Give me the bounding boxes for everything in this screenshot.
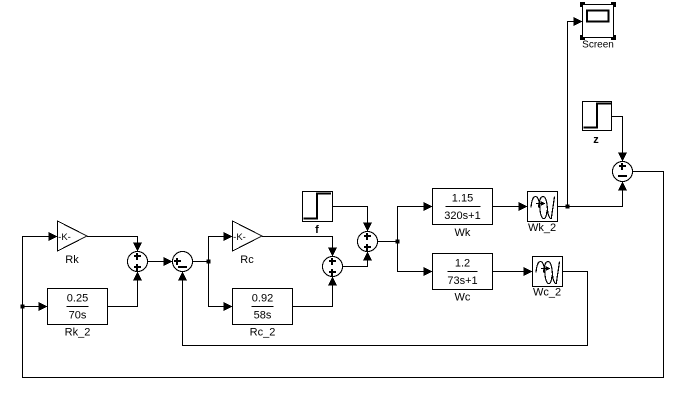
wire node up to Screen input xyxy=(568,17,583,207)
sum Sum3 (Rc + Rc_2) xyxy=(323,257,343,277)
wire branch to Rk_2 input xyxy=(23,302,48,311)
selection handle top-left of Screen xyxy=(580,2,585,7)
sum Sum5 (z minus feedback) xyxy=(613,162,633,182)
wire Wk output to Wk_2 input xyxy=(493,202,528,211)
wire z to sum Sum5 xyxy=(612,117,628,162)
sum Sum1 (Rk + Rk_2) xyxy=(128,252,148,272)
svg-text:0.25: 0.25 xyxy=(67,293,88,305)
svg-text:Rk_2: Rk_2 xyxy=(65,327,91,339)
wire Wk_2 output to node xyxy=(558,206,568,208)
wire Sum5 output right, down, along bottom, up to Rk input xyxy=(23,172,664,378)
wire branch down to Rc_2 input xyxy=(209,262,233,312)
wire Wc output to Wc_2 input xyxy=(493,267,533,276)
node branch to Rk_2 xyxy=(21,305,25,309)
transfer function Wk xyxy=(433,189,493,240)
svg-text:58s: 58s xyxy=(254,310,272,322)
svg-text:320s+1: 320s+1 xyxy=(444,210,480,222)
step source f xyxy=(303,192,333,237)
node branch to Rc and Rc_2 xyxy=(207,260,211,264)
wire Sum2 output to branch node xyxy=(193,261,209,263)
svg-text:-K-: -K- xyxy=(233,232,246,243)
svg-text:Wc_2: Wc_2 xyxy=(533,287,561,299)
wire Rc output to sum Sum3 top xyxy=(262,237,337,257)
selection handle bottom-right of Screen xyxy=(611,35,616,40)
selection handle top-right of Screen xyxy=(611,2,616,7)
wire Wc_2 output down and back to Sum2 bottom xyxy=(178,272,588,346)
wire branch up to Wk input xyxy=(398,202,433,242)
gain Rc xyxy=(233,221,263,266)
scope block Screen xyxy=(582,5,614,51)
svg-text:Wc: Wc xyxy=(455,292,471,304)
transport delay Wc_2 xyxy=(533,257,563,299)
transport delay Wk_2 xyxy=(528,192,558,235)
transfer function Rc_2 xyxy=(233,289,293,339)
gain Rk xyxy=(58,221,88,266)
transfer function Rk_2 xyxy=(48,289,108,339)
sum Sum2 (plus left, minus bottom) xyxy=(173,252,193,272)
wire f output to sum Sum4 top xyxy=(333,207,373,232)
svg-text:Wk: Wk xyxy=(455,227,471,239)
sum Sum4 (f + Sum3) xyxy=(358,232,378,252)
svg-text:Rk: Rk xyxy=(65,254,79,266)
svg-text:z: z xyxy=(593,134,599,146)
wire branch up to Rc input xyxy=(209,232,233,262)
svg-text:-K-: -K- xyxy=(58,232,71,243)
wire Rc_2 output to sum Sum3 bottom xyxy=(293,277,338,307)
svg-text:70s: 70s xyxy=(69,310,87,322)
svg-text:1.15: 1.15 xyxy=(452,193,473,205)
svg-text:73s+1: 73s+1 xyxy=(447,275,477,287)
wire Sum1 output to sum Sum2 xyxy=(148,257,173,266)
svg-text:Wk_2: Wk_2 xyxy=(528,222,556,234)
svg-text:Rc_2: Rc_2 xyxy=(250,327,276,339)
selection handle bottom-left of Screen xyxy=(580,35,585,40)
wire Rk_2 output to sum Sum1 bottom xyxy=(108,272,143,307)
wire branch down to Wc input xyxy=(398,242,433,277)
wire Sum3 output to sum Sum4 bottom xyxy=(343,252,373,267)
transfer function Wc xyxy=(433,254,493,304)
wire Sum4 output to branch node xyxy=(378,241,398,243)
svg-text:Screen: Screen xyxy=(582,40,614,51)
svg-text:0.92: 0.92 xyxy=(252,293,273,305)
svg-text:f: f xyxy=(315,224,319,236)
wire Rk output to sum Sum1 top xyxy=(87,237,142,252)
node branch to Screen and Sum5 xyxy=(566,205,570,209)
svg-text:1.2: 1.2 xyxy=(455,258,470,270)
wire node right to Sum5 bottom xyxy=(568,182,628,207)
svg-text:Rc: Rc xyxy=(240,254,254,266)
node branch to Wk and Wc xyxy=(396,240,400,244)
step source z xyxy=(583,102,612,147)
